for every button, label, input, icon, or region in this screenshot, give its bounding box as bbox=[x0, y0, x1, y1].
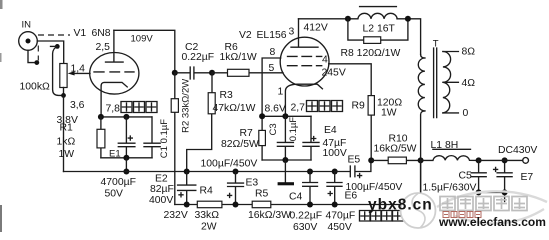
wire pot bottom to ground rail bbox=[63, 95, 65, 171]
edge smudge left bottom bbox=[0, 0, 3, 232]
svg-text:C3: C3 bbox=[268, 123, 279, 135]
node B+/OPT primary bbox=[418, 157, 424, 163]
node cathode/R1 bbox=[98, 114, 104, 120]
resistor R8 120/1W bbox=[341, 19, 408, 59]
node C2/R6/R3 bbox=[209, 70, 215, 76]
svg-text:16kΩ/5W: 16kΩ/5W bbox=[374, 144, 417, 155]
svg-text:1kΩ/1W: 1kΩ/1W bbox=[220, 52, 257, 63]
watermark CJK gray bbox=[440, 197, 527, 211]
node shield tap bbox=[55, 44, 60, 49]
node cathode bbox=[282, 113, 288, 119]
label two in series bbox=[360, 211, 404, 222]
svg-text:7,8: 7,8 bbox=[106, 104, 121, 115]
svg-text:R5: R5 bbox=[255, 189, 269, 200]
wire to DC terminal bbox=[479, 159, 523, 161]
transformer T core bbox=[433, 39, 439, 118]
resistor R6 1k/1W bbox=[212, 42, 283, 76]
node ground E6/E5 bbox=[332, 169, 338, 175]
svg-text:2W: 2W bbox=[201, 222, 217, 233]
svg-text:630V: 630V bbox=[293, 222, 317, 233]
svg-text:33kΩ: 33kΩ bbox=[195, 210, 220, 221]
node ground E1 bbox=[123, 169, 129, 175]
node ground E2 bbox=[184, 169, 190, 175]
V2 plate bbox=[291, 19, 318, 47]
svg-text:T: T bbox=[433, 39, 439, 50]
resistor R5 16k/3W bbox=[248, 189, 291, 222]
node L2 right bbox=[405, 16, 411, 22]
V1 cathode bbox=[101, 82, 127, 117]
svg-text:C1 0.1µF: C1 0.1µF bbox=[159, 119, 170, 158]
wire C5/E7 bottom bbox=[479, 192, 505, 201]
svg-text:232V: 232V bbox=[164, 210, 188, 221]
shield dashed vertical bbox=[37, 46, 39, 61]
wire shield tap stub bbox=[51, 45, 58, 47]
svg-text:1W: 1W bbox=[381, 108, 397, 119]
svg-text:1.5µF/630V: 1.5µF/630V bbox=[423, 183, 477, 194]
svg-text:0: 0 bbox=[463, 108, 469, 119]
input jack IN bbox=[19, 20, 38, 51]
wire V2 anode top bbox=[299, 18, 348, 20]
potentiometer 100k bbox=[20, 64, 68, 93]
chassis ground bar bbox=[278, 182, 294, 185]
svg-text:R7: R7 bbox=[240, 128, 254, 139]
wire drop to ground bbox=[125, 158, 127, 172]
node pot bottom bbox=[61, 93, 66, 98]
svg-text:E5: E5 bbox=[348, 155, 361, 166]
watermark circle logo bbox=[401, 193, 436, 228]
node E7 top bbox=[502, 157, 508, 163]
svg-text:4: 4 bbox=[322, 55, 328, 66]
svg-text:3,6: 3,6 bbox=[70, 100, 85, 111]
inductor L1 8H bbox=[421, 140, 479, 160]
svg-text:109V: 109V bbox=[131, 34, 154, 45]
svg-text:E3: E3 bbox=[246, 178, 259, 189]
svg-text:470µF: 470µF bbox=[326, 211, 356, 222]
capacitor E3 100uF/450V bbox=[201, 159, 259, 205]
svg-text:R9: R9 bbox=[352, 101, 366, 112]
node B+ E2 bbox=[184, 202, 190, 208]
svg-text:L2 16T: L2 16T bbox=[363, 24, 396, 35]
V2 cathode bbox=[285, 84, 322, 116]
svg-text:4700µF: 4700µF bbox=[101, 177, 136, 188]
svg-text:V2: V2 bbox=[239, 30, 252, 41]
svg-text:R4: R4 bbox=[200, 186, 214, 197]
svg-text:C5: C5 bbox=[459, 171, 473, 182]
node B+ E6 bbox=[332, 202, 338, 208]
tube V1 6N8 bbox=[70, 28, 139, 111]
svg-text:R3: R3 bbox=[220, 90, 234, 101]
ground rail bbox=[64, 171, 335, 173]
resistor R2 33k/2W bbox=[171, 73, 191, 205]
svg-text:82Ω/5W: 82Ω/5W bbox=[221, 139, 259, 150]
inductor L2 16T bbox=[358, 7, 397, 35]
node E1 top bbox=[123, 114, 129, 120]
cathode top rail bbox=[101, 116, 152, 118]
svg-text:412V: 412V bbox=[304, 23, 328, 34]
svg-text:R1: R1 bbox=[60, 123, 74, 134]
svg-text:E2: E2 bbox=[155, 174, 168, 185]
wire V2 anode rail to L2 bbox=[348, 19, 421, 55]
resistor R9 120 1W bbox=[352, 96, 403, 161]
capacitor C1 0.1uF bbox=[144, 117, 170, 158]
resistor R1 1k 1W bbox=[57, 117, 105, 160]
svg-text:R8 120Ω/1W: R8 120Ω/1W bbox=[341, 48, 401, 59]
resistor R7 82/5W bbox=[221, 128, 265, 160]
V2 grid dashes bbox=[288, 55, 322, 57]
svg-text:1W: 1W bbox=[59, 149, 75, 160]
capacitor E1 4700uF 50V bbox=[101, 117, 136, 200]
node ground C4 bbox=[307, 169, 313, 175]
node bottom rail bbox=[123, 155, 129, 161]
svg-text:16kΩ/3W: 16kΩ/3W bbox=[248, 210, 291, 221]
capacitor E5 100uF/450V bbox=[335, 155, 403, 194]
node C5 top bbox=[476, 157, 482, 163]
svg-text:245V: 245V bbox=[322, 68, 346, 79]
capacitor E6 470uF 450V bbox=[326, 172, 358, 234]
svg-text:C4: C4 bbox=[289, 192, 303, 203]
svg-text:82µF: 82µF bbox=[150, 184, 174, 195]
transformer T primary bbox=[418, 55, 425, 205]
svg-text:8: 8 bbox=[270, 47, 276, 58]
svg-text:6N8: 6N8 bbox=[92, 28, 111, 39]
capacitor C5 1.5uF/630V bbox=[423, 160, 487, 193]
node E7 bottom bbox=[502, 189, 508, 195]
svg-text:400V: 400V bbox=[149, 195, 173, 206]
svg-text:2,5: 2,5 bbox=[96, 42, 111, 53]
wire drop + ground bar bbox=[284, 160, 286, 182]
terminal DC430V bbox=[498, 145, 537, 163]
svg-text:8Ω: 8Ω bbox=[462, 47, 476, 58]
capacitor C3 0.1uF bbox=[268, 116, 299, 160]
svg-text:0.22µF: 0.22µF bbox=[182, 52, 215, 63]
svg-text:4Ω: 4Ω bbox=[462, 78, 476, 89]
node R9/R10/E5 bbox=[368, 157, 374, 163]
svg-text:2,7: 2,7 bbox=[291, 103, 306, 114]
watermark flourish bbox=[437, 191, 547, 223]
svg-text:0.22µF: 0.22µF bbox=[290, 211, 323, 222]
node B+ E3 bbox=[233, 202, 239, 208]
svg-text:100kΩ: 100kΩ bbox=[20, 82, 51, 93]
wire jack center to pot top bbox=[37, 41, 63, 64]
resistor R3 47k/1W bbox=[187, 73, 256, 172]
label 7,8 heater bbox=[106, 102, 158, 115]
wire V2 pin8 bbox=[262, 58, 281, 130]
node pin8/R7 bbox=[259, 113, 265, 119]
svg-text:450V: 450V bbox=[328, 222, 352, 233]
svg-text:DC430V: DC430V bbox=[498, 145, 537, 156]
shield dashed horizontal bbox=[38, 34, 70, 36]
svg-text:EL156: EL156 bbox=[257, 30, 287, 41]
node cathode ground drop bbox=[282, 157, 288, 163]
wire shield tap to pot bottom bbox=[53, 46, 64, 95]
svg-text:L1 8H: L1 8H bbox=[431, 140, 459, 151]
capacitor E7 bbox=[494, 160, 534, 192]
svg-text:ybx8.cn: ybx8.cn bbox=[368, 197, 433, 214]
svg-text:R2 33kΩ/2W: R2 33kΩ/2W bbox=[180, 79, 191, 133]
node sleeve/shield bbox=[34, 60, 39, 65]
node ground E3 bbox=[233, 169, 239, 175]
svg-text:3: 3 bbox=[289, 27, 295, 38]
transformer T secondary bbox=[443, 47, 475, 120]
node L2 left bbox=[345, 16, 351, 22]
wire V1 anode top bbox=[114, 30, 175, 73]
pot bottom lead bbox=[63, 88, 65, 96]
V1 anode bbox=[106, 30, 124, 62]
B+ bottom rail bbox=[175, 160, 421, 204]
svg-text:100µF/450V: 100µF/450V bbox=[201, 159, 258, 170]
node B+ C4 bbox=[307, 202, 313, 208]
wire V2 pin4 to R9 bbox=[329, 64, 372, 96]
node C2 junction bbox=[172, 70, 178, 76]
svg-text:1kΩ: 1kΩ bbox=[57, 137, 76, 148]
svg-text:IN: IN bbox=[22, 20, 32, 31]
node C5 bottom bbox=[476, 189, 482, 195]
cathode bottom rail bbox=[101, 157, 152, 159]
V1 grid dashes bbox=[94, 71, 134, 73]
svg-text:1,4: 1,4 bbox=[71, 64, 86, 75]
svg-text:E4: E4 bbox=[324, 125, 337, 136]
svg-text:E7: E7 bbox=[521, 172, 534, 183]
svg-text:100V: 100V bbox=[323, 148, 347, 159]
svg-text:8.6V: 8.6V bbox=[265, 104, 286, 115]
svg-text:1: 1 bbox=[278, 87, 284, 98]
watermark red small bbox=[443, 212, 481, 218]
tube V2 EL156 bbox=[239, 30, 329, 86]
pin labels V2 bbox=[269, 27, 329, 98]
svg-text:www.elecfans.com: www.elecfans.com bbox=[438, 215, 546, 229]
svg-text:100µF/450V: 100µF/450V bbox=[346, 182, 403, 193]
capacitor E4 47uF 100V bbox=[303, 116, 347, 160]
capacitor C2 0.22uF bbox=[175, 42, 214, 79]
label 2,7 heater bbox=[291, 101, 343, 114]
svg-text:5: 5 bbox=[269, 63, 275, 74]
cathode node wire V2 bbox=[262, 115, 311, 117]
svg-text:50V: 50V bbox=[105, 189, 124, 200]
svg-text:0.1µF: 0.1µF bbox=[288, 117, 299, 142]
svg-text:47kΩ/1W: 47kΩ/1W bbox=[213, 103, 256, 114]
cathode bottom rail V2 bbox=[262, 159, 311, 161]
capacitor C4 0.22uF 630V bbox=[289, 172, 322, 234]
resistor R4 33k 2W bbox=[195, 186, 222, 233]
pot wiper arrow bbox=[68, 64, 90, 76]
svg-text:V1: V1 bbox=[74, 28, 87, 39]
capacitor E2 82uF 400V bbox=[149, 172, 196, 222]
resistor R10 16k/5W bbox=[371, 134, 420, 164]
wire jack sleeve bbox=[28, 50, 36, 62]
